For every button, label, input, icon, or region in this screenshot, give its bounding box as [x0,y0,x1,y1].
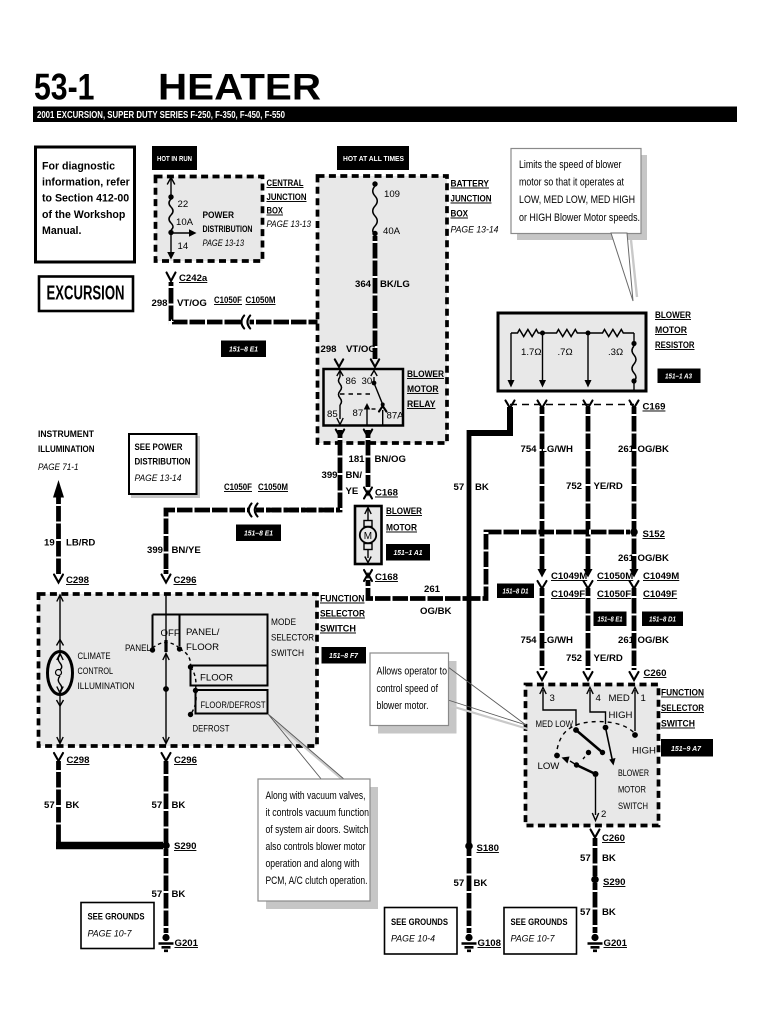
svg-text:DEFROST: DEFROST [193,724,230,735]
svg-text:53-1: 53-1 [34,66,95,108]
tag 151-1 A3 [658,369,701,384]
climate control illumination lamp DS1 [48,595,135,744]
svg-text:22: 22 [178,199,189,210]
connector C169 [506,401,666,413]
svg-text:10A: 10A [176,217,194,228]
svg-text:JUNCTION: JUNCTION [267,192,307,203]
svg-text:261: 261 [618,553,635,564]
svg-text:HOT AT ALL TIMES: HOT AT ALL TIMES [343,154,404,163]
svg-text:57: 57 [454,878,465,889]
svg-text:BN/: BN/ [346,470,363,481]
svg-text:S180: S180 [477,843,499,854]
blower motor M1 [355,506,382,564]
function selector switch S2 (blower motor switch) box [526,685,659,826]
svg-text:information, refer: information, refer [42,177,130,189]
svg-text:C1050M: C1050M [597,571,633,582]
svg-text:BN/OG: BN/OG [375,454,406,465]
svg-text:PANEL: PANEL [125,643,152,654]
svg-text:FUNCTION: FUNCTION [661,688,704,699]
svg-text:CENTRAL: CENTRAL [267,178,304,189]
svg-text:57: 57 [580,907,591,918]
svg-text:of the Workshop: of the Workshop [42,209,126,221]
svg-text:POWER: POWER [203,210,235,221]
label BLOWER MOTOR RELAY [407,369,444,410]
svg-text:BN/YE: BN/YE [172,545,202,556]
svg-text:57: 57 [152,889,163,900]
svg-text:399: 399 [147,545,163,556]
blower motor resistor R1 box [498,313,646,391]
svg-text:151–8 E1: 151–8 E1 [229,345,258,354]
tag 151-8 E1 (column) [594,612,627,627]
svg-text:PAGE 10-7: PAGE 10-7 [88,929,133,940]
svg-text:YE: YE [346,486,359,497]
see grounds box (middle) [385,908,458,955]
svg-text:C1050F: C1050F [224,482,252,493]
wire 752 YE/RD column [566,407,623,569]
ground G201 (left) [159,934,199,951]
pin 3 [540,688,576,727]
tag 151-8 E1 (lower) [236,525,281,542]
svg-text:SWITCH: SWITCH [661,719,695,730]
callout: allows operator to control speed [370,653,528,734]
svg-text:PCM, A/C clutch operation.: PCM, A/C clutch operation. [266,875,368,887]
wire 19 LB/RD [44,480,95,574]
svg-text:EXCURSION: EXCURSION [47,282,125,305]
svg-text:86: 86 [346,376,357,387]
svg-text:C169: C169 [643,402,666,413]
svg-text:261: 261 [618,444,635,455]
svg-text:C296: C296 [174,575,197,586]
svg-text:MED: MED [609,693,630,704]
svg-text:754: 754 [521,635,538,646]
svg-text:BLOWER: BLOWER [386,506,422,517]
wire 181 BN/OG from relay 87 [349,430,406,488]
svg-text:85: 85 [327,409,338,420]
svg-text:57: 57 [454,482,465,493]
svg-text:RESISTOR: RESISTOR [655,340,695,351]
svg-text:of system air doors. Switch: of system air doors. Switch [266,824,369,836]
svg-text:YE/RD: YE/RD [594,481,623,492]
svg-text:BLOWER: BLOWER [618,768,649,779]
see grounds box (left) [81,903,154,949]
svg-text:BK: BK [172,800,186,811]
svg-text:FLOOR: FLOOR [186,642,219,653]
connector C168 (top) [364,488,399,499]
svg-text:C298: C298 [66,575,90,586]
svg-text:PANEL/: PANEL/ [186,627,220,638]
connector C296 (bottom) [162,753,197,766]
svg-text:C1049M: C1049M [643,571,679,582]
svg-text:754: 754 [521,444,538,455]
wire 57 BK to S290 (right) [580,838,616,876]
svg-text:C1050F: C1050F [597,589,631,600]
svg-text:3: 3 [550,693,555,704]
blower motor switch rotary contacts [554,722,638,777]
svg-text:HIGH: HIGH [609,710,633,721]
svg-text:SELECTOR: SELECTOR [320,609,365,620]
svg-text:151–8 E1: 151–8 E1 [598,615,623,624]
svg-text:PAGE 13-14: PAGE 13-14 [135,473,182,484]
svg-text:BK: BK [602,853,616,864]
tag 151-1 A1 [386,544,430,561]
svg-text:CLIMATE: CLIMATE [78,651,111,662]
svg-text:752: 752 [566,653,582,664]
label FUNCTION SELECTOR SWITCH (mode) [320,594,365,635]
svg-text:151–9 A7: 151–9 A7 [671,744,702,753]
svg-text:BOX: BOX [451,209,469,220]
wire 364 BK/LG [355,236,410,359]
wire 399 BN/YE horizontal run [147,504,340,575]
svg-text:control speed of: control speed of [377,683,439,695]
svg-text:FLOOR: FLOOR [200,673,233,684]
connector C242a [167,273,208,285]
ground G201 (right) [588,934,628,951]
svg-text:30: 30 [362,376,373,387]
svg-text:57: 57 [44,800,55,811]
svg-text:2001 EXCURSION, SUPER DUTY SER: 2001 EXCURSION, SUPER DUTY SERIES F-250,… [37,110,285,121]
svg-text:4: 4 [596,693,602,704]
svg-text:MOTOR: MOTOR [407,384,439,395]
svg-text:40A: 40A [383,226,401,237]
svg-text:PAGE 13-14: PAGE 13-14 [451,225,499,236]
svg-text:MED LOW: MED LOW [536,719,574,730]
label BLOWER MOTOR [386,506,422,534]
svg-text:261: 261 [424,584,441,595]
splice S290 (left) [162,841,196,852]
connector C298 (top) [54,575,90,587]
wire 57 BK to G201 (left) [152,849,186,933]
svg-text:C1050F: C1050F [214,295,242,306]
wire 57 BK to G108 [454,849,488,933]
svg-text:1: 1 [641,693,646,704]
splice S152 [618,528,669,564]
connector C1050F C1050M (lower) [224,482,288,493]
pin 1 [632,688,646,732]
svg-text:Limits the speed of blower: Limits the speed of blower [519,159,622,171]
EXCURSION box [39,277,133,312]
svg-text:BLOWER: BLOWER [655,310,691,321]
svg-text:CONTROL: CONTROL [78,666,114,677]
svg-text:151–8 D1: 151–8 D1 [649,615,676,624]
svg-text:BLOWER: BLOWER [407,369,444,380]
svg-text:MODE: MODE [271,617,296,628]
wire 261 OG/BK lower [618,588,669,670]
wire 754 LG/WH lower [521,588,574,670]
svg-text:C296: C296 [174,755,197,766]
svg-text:S152: S152 [643,529,665,540]
HOT IN RUN tag [152,146,197,170]
svg-text:C1049M: C1049M [551,571,587,582]
label CENTRAL JUNCTION BOX [267,178,312,230]
note box: diagnostic information [36,147,135,262]
svg-text:SWITCH: SWITCH [320,624,356,635]
svg-text:blower motor.: blower motor. [377,700,429,712]
svg-text:298: 298 [152,298,169,309]
svg-text:Manual.: Manual. [42,225,81,237]
svg-text:RELAY: RELAY [407,399,436,410]
pin 4 [587,688,606,725]
svg-text:LB/RD: LB/RD [66,538,95,549]
svg-text:HIGH: HIGH [632,746,656,757]
svg-text:MOTOR: MOTOR [386,523,417,534]
battery junction box U-BJB [318,176,448,443]
svg-text:87: 87 [353,408,364,419]
svg-text:BK/LG: BK/LG [380,279,410,290]
svg-text:C260: C260 [644,668,667,679]
svg-text:OG/BK: OG/BK [638,444,670,455]
svg-text:also controls blower motor: also controls blower motor [266,841,366,853]
svg-text:LG/WH: LG/WH [541,444,573,455]
svg-text:ILLUMINATION: ILLUMINATION [38,444,95,455]
connector C296 (top) [162,575,197,587]
wire 57 BK center branch [454,407,511,846]
svg-text:S290: S290 [603,877,625,888]
svg-text:57: 57 [152,800,163,811]
label BATTERY JUNCTION BOX [451,179,499,236]
svg-text:operation and along with: operation and along with [266,858,360,870]
svg-text:VT/OG: VT/OG [346,344,376,355]
svg-text:151–8 E1: 151–8 E1 [244,529,273,538]
svg-text:109: 109 [384,189,400,200]
svg-text:DISTRIBUTION: DISTRIBUTION [203,224,253,235]
connector C298 (bottom) [54,753,90,766]
tag 151-8 D1 (left) [497,584,534,599]
callout: limits speed of blower motor [511,149,647,302]
splice S180 [465,842,499,854]
callout: along with vacuum valves [258,714,378,909]
connector C1050F C1050M (upper) [214,295,276,306]
svg-text:DISTRIBUTION: DISTRIBUTION [135,457,191,468]
svg-text:14: 14 [178,241,189,252]
label instrument illumination [38,429,95,473]
svg-text:C1049F: C1049F [551,589,585,600]
svg-text:261: 261 [618,635,635,646]
svg-text:752: 752 [566,481,582,492]
svg-text:C298: C298 [67,755,91,766]
svg-text:151–8 D1: 151–8 D1 [503,587,529,596]
svg-text:HEATER: HEATER [158,66,321,108]
svg-text:SWITCH: SWITCH [271,648,304,659]
svg-text:FLOOR/DEFROST: FLOOR/DEFROST [201,700,266,711]
pin 2 [592,777,606,821]
svg-text:C168: C168 [375,488,399,499]
svg-text:For diagnostic: For diagnostic [42,161,115,173]
svg-text:364: 364 [355,279,372,290]
connector C168 (bottom) [364,570,399,583]
svg-text:INSTRUMENT: INSTRUMENT [38,429,94,440]
svg-text:S290: S290 [174,841,196,852]
svg-text:2: 2 [601,809,606,820]
svg-text:G201: G201 [604,938,628,949]
svg-text:BATTERY: BATTERY [451,179,490,190]
svg-text:C242a: C242a [179,273,208,284]
svg-text:C1050M: C1050M [258,482,288,493]
svg-text:PAGE 10-7: PAGE 10-7 [511,934,556,945]
mode selector switch S1 box [39,594,318,746]
svg-text:C168: C168 [375,572,399,583]
power distribution text [203,210,253,249]
svg-text:MOTOR: MOTOR [618,785,646,796]
svg-text:G108: G108 [478,938,502,949]
subtitle black bar [33,107,737,123]
svg-text:BK: BK [66,800,80,811]
svg-text:19: 19 [44,538,55,549]
label BLOWER MOTOR RESISTOR [655,310,695,351]
splice S290 (right) [591,876,625,888]
svg-text:LOW, MED LOW, MED HIGH: LOW, MED LOW, MED HIGH [519,194,635,206]
svg-text:BOX: BOX [267,206,284,217]
svg-text:PAGE 10-4: PAGE 10-4 [391,934,435,945]
wire 399 BN/YE from relay 85 [256,430,362,511]
connector C1050M/C1050F (middle pair) [584,569,634,600]
svg-text:OG/BK: OG/BK [638,553,670,564]
see grounds box (right) [504,908,577,955]
svg-text:57: 57 [580,853,591,864]
svg-text:BK: BK [172,889,186,900]
ground G108 [462,934,502,951]
svg-text:or HIGH Blower Motor speeds.: or HIGH Blower Motor speeds. [519,212,640,224]
wire 298 VT/OG from C242a [152,282,340,359]
connector C1049M/C1049F (left pair) [538,569,588,600]
svg-text:PAGE 13-13: PAGE 13-13 [267,219,312,230]
svg-text:SELECTOR: SELECTOR [661,703,704,714]
central junction box U-CJB [156,177,263,262]
svg-text:ILLUMINATION: ILLUMINATION [78,681,135,692]
connector C260 (top) [538,668,667,680]
label MODE SELECTOR SWITCH [271,617,314,659]
svg-text:VT/OG: VT/OG [177,298,207,309]
wire 57 BK center to S290 [152,761,186,843]
svg-text:MOTOR: MOTOR [655,325,687,336]
svg-text:181: 181 [349,454,366,465]
see power distribution box [129,434,200,498]
svg-text:SELECTOR: SELECTOR [271,633,314,644]
wire 57 BK to G201 (right) [580,883,616,933]
svg-text:151–1 A3: 151–1 A3 [665,372,693,381]
svg-text:HOT IN RUN: HOT IN RUN [157,154,192,163]
tag 151-8 F7 [322,647,367,664]
HOT AT ALL TIMES tag [337,146,409,170]
svg-text:M: M [364,531,372,542]
wire 261 OG/BK motor to S152 [368,580,470,617]
switch position labels [536,693,657,812]
title 53-1 HEATER [34,66,321,108]
svg-text:Allows operator to: Allows operator to [377,666,448,678]
svg-text:OFF: OFF [161,628,180,639]
svg-text:298: 298 [321,344,338,355]
svg-text:YE/RD: YE/RD [594,653,623,664]
svg-text:.3Ω: .3Ω [608,347,623,358]
svg-text:87A: 87A [387,411,405,422]
svg-text:PAGE 13-13: PAGE 13-13 [203,238,245,249]
relay K1 blower motor relay [324,369,405,426]
wire 752 YE/RD lower [566,588,623,670]
wire 261 OG/BK from S152 to blower motor [470,532,630,599]
svg-text:PAGE 71-1: PAGE 71-1 [38,462,79,473]
svg-text:motor so that it operates at: motor so that it operates at [519,177,625,189]
svg-text:LG/WH: LG/WH [541,635,573,646]
connector C260 (bottom) [591,830,625,845]
connector C1049M/C1049F (right pair) [630,569,680,600]
svg-text:399: 399 [322,470,338,481]
tag 151-9 A7 [661,739,713,757]
svg-text:C260: C260 [602,833,625,844]
svg-text:151–1 A1: 151–1 A1 [394,548,423,557]
wire 57 BK left to S290 [44,761,163,846]
svg-text:C1049F: C1049F [643,589,677,600]
svg-text:OG/BK: OG/BK [420,606,452,617]
svg-text:BK: BK [474,878,488,889]
svg-text:BK: BK [602,907,616,918]
svg-text:SEE GROUNDS: SEE GROUNDS [391,917,448,928]
svg-text:G201: G201 [175,938,199,949]
svg-text:to Section 412-00: to Section 412-00 [42,193,129,205]
svg-text:SEE GROUNDS: SEE GROUNDS [511,917,568,928]
label FUNCTION SELECTOR SWITCH (right) [661,688,704,730]
wire 754 LG/WH column [521,407,574,569]
svg-text:OG/BK: OG/BK [638,635,670,646]
svg-text:it controls vacuum function: it controls vacuum function [266,807,370,819]
svg-text:BK: BK [475,482,489,493]
svg-text:FUNCTION: FUNCTION [320,594,365,605]
svg-text:.7Ω: .7Ω [558,347,573,358]
fuse F109 40A [372,181,400,237]
svg-text:C1050M: C1050M [246,295,276,306]
tag 151-8 D1 (column) [642,612,683,627]
svg-text:SWITCH: SWITCH [618,801,648,812]
tag 151-8 E1 (upper) [221,341,266,358]
svg-text:JUNCTION: JUNCTION [451,194,492,205]
svg-text:LOW: LOW [538,761,561,772]
svg-text:151–8 F7: 151–8 F7 [329,651,359,660]
mode switch contact structure [125,594,268,744]
svg-text:1.7Ω: 1.7Ω [521,347,542,358]
fuse F22 10A [167,178,196,260]
svg-text:Along with vacuum valves,: Along with vacuum valves, [266,790,366,802]
svg-text:SEE POWER: SEE POWER [135,442,183,453]
wire 261 OG/BK column [618,407,669,569]
node 298 VT/OG into relay [321,344,380,367]
svg-text:SEE GROUNDS: SEE GROUNDS [88,912,145,923]
